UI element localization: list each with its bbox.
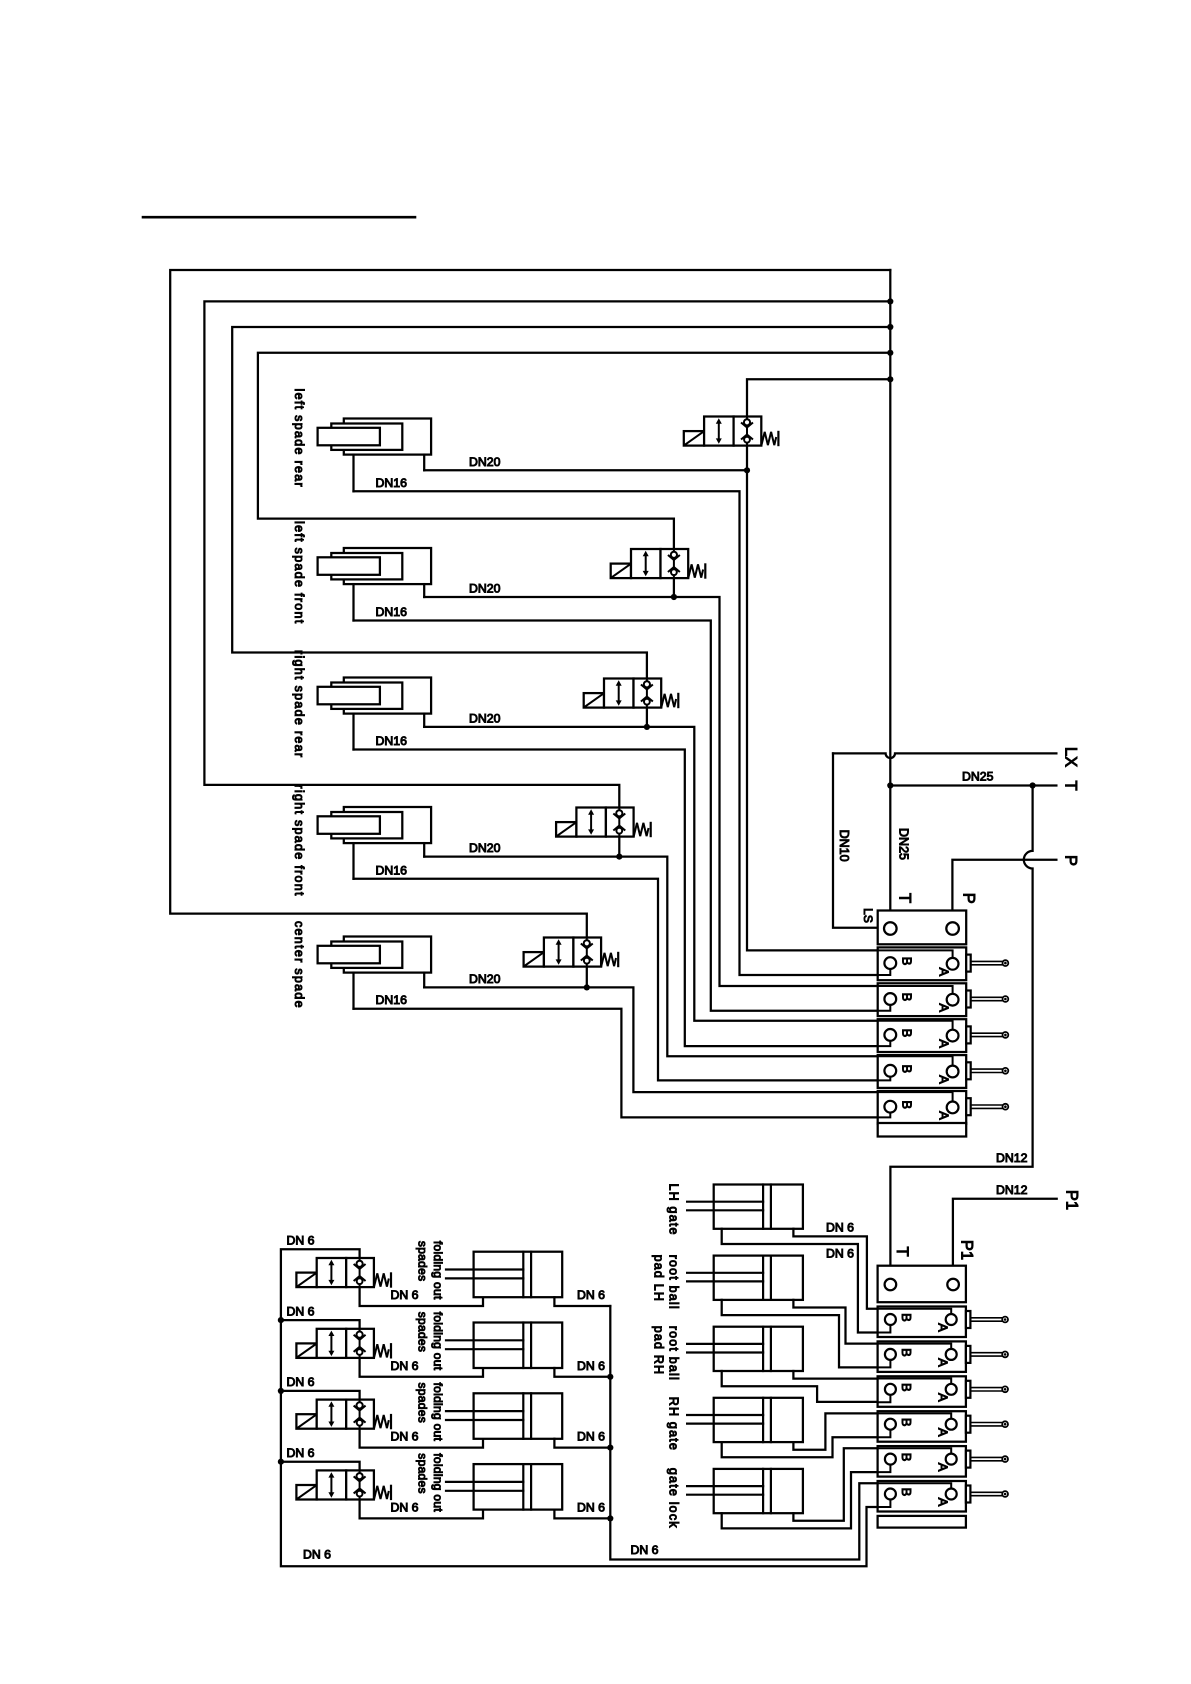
P1 section 2 port A circle <box>946 1349 957 1360</box>
wire DN6 branch to valve FV4 <box>281 1462 360 1471</box>
label "RH gate" <box>666 1397 680 1451</box>
svg-text:B: B <box>899 957 914 966</box>
svg-text:LH gate: LH gate <box>666 1184 680 1236</box>
svg-text:root ball: root ball <box>666 1255 680 1310</box>
svg-text:DN 6: DN 6 <box>391 1500 419 1514</box>
junction dot valve V5 bottom / DN20 <box>584 984 590 990</box>
cylinder FC4 "folding out spades" <box>446 1464 562 1510</box>
P1 section 5 label A <box>935 1463 950 1472</box>
P1 section 6 body <box>878 1481 966 1512</box>
cylinder 4 rod-side port wire <box>352 843 354 879</box>
P1 port T circle <box>885 1279 897 1291</box>
wire DN6 branch to valve FV3 <box>281 1391 360 1400</box>
wire DN16 row 3 (cylinder to manifold B) <box>354 750 878 1047</box>
solenoid valve FV2 (folding out spades) <box>296 1329 391 1358</box>
junction dot trunk / valve V4 feed <box>887 298 893 304</box>
label DN 6 (bottom middle) <box>631 1543 659 1557</box>
wire DN12 drop to P1 manifold T port <box>890 786 1032 1279</box>
svg-text:pad LH: pad LH <box>651 1255 665 1303</box>
svg-text:DN16: DN16 <box>376 734 408 748</box>
svg-text:DN 6: DN 6 <box>826 1247 854 1261</box>
P1 section 5 port A circle <box>946 1454 957 1465</box>
svg-text:P: P <box>959 893 977 904</box>
valve V2 bottom port wire <box>673 578 675 597</box>
svg-text:LX: LX <box>1061 747 1079 767</box>
svg-text:DN10: DN10 <box>837 830 851 862</box>
cylinder FC2 "folding out spades" <box>446 1323 562 1369</box>
solenoid valve V5 <box>524 938 619 967</box>
label P (manifold port) <box>959 893 977 904</box>
manifold block P1 - end plate <box>878 1516 966 1528</box>
label DN20 row 1 <box>469 455 501 469</box>
P1 section 6 port B circle <box>885 1489 896 1500</box>
P1 section 5 port B circle <box>885 1454 896 1465</box>
svg-text:right spade front: right spade front <box>292 784 306 896</box>
junction dot trunk / valve V3 feed <box>887 324 893 330</box>
wire cylinder GC3 piston port to P1 section 3 A <box>793 1371 877 1379</box>
solenoid valve FV3 (folding out spades) <box>296 1400 391 1429</box>
svg-text:A: A <box>935 1393 950 1402</box>
section 5 port A circle <box>947 1102 959 1114</box>
label "LH gate" <box>666 1184 680 1236</box>
wire DN10 vertical to LS port <box>833 753 878 927</box>
section 3 port B circle <box>884 1029 896 1041</box>
svg-text:A: A <box>935 1463 950 1472</box>
label DN 6 (branch 4) <box>287 1446 315 1460</box>
svg-text:B: B <box>899 1348 914 1357</box>
P1 section 3 label B <box>899 1383 914 1392</box>
section 4 port B circle <box>884 1065 896 1077</box>
label "center spade" <box>292 921 306 1009</box>
P1 section 1 hand lever <box>966 1311 1008 1328</box>
label LX <box>1061 747 1079 767</box>
wire cylinder FC3 to right bus <box>554 1439 610 1448</box>
section 2 label B <box>899 993 914 1002</box>
wire DN20 row 3 (cylinder to valve/manifold A) <box>424 727 878 1021</box>
cylinder 3 piston-side port wire <box>423 714 425 727</box>
section 3 port A circle <box>947 1030 959 1042</box>
wire LX line (LS pilot) with hop <box>833 753 1056 758</box>
svg-text:DN25: DN25 <box>962 770 994 784</box>
label DN 6 (valve out 2) <box>391 1359 419 1373</box>
P1 section 3 hand lever <box>966 1381 1008 1398</box>
section 1 hand lever <box>966 955 1008 972</box>
label P (right edge) <box>1061 855 1079 866</box>
wire cylinder FC4 to right bus <box>554 1510 610 1519</box>
svg-text:DN 6: DN 6 <box>287 1234 315 1248</box>
svg-text:spades: spades <box>416 1241 430 1282</box>
label "gate lock" <box>666 1468 680 1529</box>
telescopic cylinder "right spade front" <box>318 807 431 843</box>
label "folding out spades" 1 <box>416 1241 445 1300</box>
manifold section 3 body <box>878 1019 967 1052</box>
cylinder 1 piston-side port wire <box>423 455 425 471</box>
wire DN6 branch to valve FV2 <box>281 1320 360 1329</box>
P1 section 1 port A circle <box>946 1314 957 1325</box>
section 5 hand lever <box>966 1098 1008 1115</box>
section 5 label B <box>899 1100 914 1109</box>
svg-text:B: B <box>899 993 914 1002</box>
svg-text:DN 6: DN 6 <box>391 1430 419 1444</box>
svg-text:DN 6: DN 6 <box>287 1375 315 1389</box>
section 3 A wire inside <box>878 1021 953 1030</box>
svg-text:B: B <box>899 1100 914 1109</box>
wire loop valve V2 top port to DN25 trunk <box>258 353 890 549</box>
P1 section 3 A wire inside <box>878 1379 952 1384</box>
svg-text:DN 6: DN 6 <box>826 1221 854 1235</box>
telescopic cylinder "right spade rear" <box>318 678 431 714</box>
svg-text:A: A <box>935 1323 950 1332</box>
label DN 6 (cyl out 1) <box>577 1288 605 1302</box>
label "folding out spades" 2 <box>416 1312 445 1371</box>
P1 section 5 body <box>878 1446 966 1477</box>
telescopic cylinder "left spade rear" <box>318 419 431 455</box>
wire loop valve V4 top port to DN25 trunk <box>204 301 890 807</box>
junction dot left bus branch 3 <box>278 1388 284 1394</box>
section 1 label A <box>936 967 951 976</box>
P1 section 6 hand lever <box>966 1486 1008 1503</box>
svg-text:P: P <box>1061 855 1079 866</box>
wire DN20 row 5 (cylinder to valve/manifold A) <box>424 987 878 1092</box>
wire cylinder GC1 piston port to P1 section 1 A <box>793 1229 877 1309</box>
wire DN16 row 4 (cylinder to manifold B) <box>354 879 878 1081</box>
section 2 A wire inside <box>878 986 953 994</box>
P1 section 3 port B circle <box>885 1384 896 1395</box>
cylinder GC1 "LH gate" <box>687 1185 803 1229</box>
wire loop valve V5 top port to DN25 trunk <box>170 270 890 938</box>
label DN 6 (valve out 4) <box>391 1500 419 1514</box>
cylinder 5 piston-side port wire <box>423 973 425 988</box>
label "folding out spades" 4 <box>416 1453 445 1512</box>
wire DN20 row 1 (cylinder to valve/manifold A) <box>424 470 878 950</box>
valve V4 bottom port wire <box>618 837 620 857</box>
label DN 6 (cyl out 2) <box>577 1359 605 1373</box>
label DN20 row 3 <box>469 711 501 725</box>
label DN 6 (GC1 rod line) <box>826 1247 854 1261</box>
label DN 6 (valve out 1) <box>391 1288 419 1302</box>
wire cylinder GC5 rod port to P1 section 5 B <box>722 1472 878 1528</box>
section 1 port B circle <box>884 957 896 969</box>
section 2 B hook inside <box>878 1005 891 1011</box>
label T (right edge) <box>1061 780 1079 790</box>
svg-text:gate lock: gate lock <box>666 1468 680 1529</box>
svg-text:spades: spades <box>416 1453 430 1494</box>
junction dot valve V4 bottom / DN20 <box>616 854 622 860</box>
label T (manifold port) <box>895 893 913 903</box>
solenoid valve FV4 (folding out spades) <box>296 1470 391 1499</box>
label DN 6 (GC1 piston line) <box>826 1221 854 1235</box>
svg-text:pad RH: pad RH <box>651 1326 665 1376</box>
section 1 port A circle <box>947 958 959 970</box>
P1 section 2 body <box>878 1341 966 1372</box>
svg-text:DN 6: DN 6 <box>577 1288 605 1302</box>
P1 section 5 B hook inside <box>878 1465 891 1473</box>
label DN20 row 5 <box>469 972 501 986</box>
P1 section 1 label B <box>899 1313 914 1322</box>
section 4 A wire inside <box>878 1056 953 1065</box>
svg-text:DN16: DN16 <box>376 863 408 877</box>
svg-text:DN16: DN16 <box>376 476 408 490</box>
P1 section 6 A wire inside <box>878 1483 952 1488</box>
junction dot valve V3 bottom / DN20 <box>644 724 650 730</box>
label DN25 (T line) <box>962 770 994 784</box>
P1 section 2 label B <box>899 1348 914 1357</box>
P1 section 3 B hook inside <box>878 1395 891 1403</box>
cylinder GC5 "gate lock" <box>687 1469 803 1513</box>
wire cylinder GC2 piston port to P1 section 2 A <box>793 1300 877 1344</box>
section 5 A wire inside <box>878 1092 953 1101</box>
telescopic cylinder "left spade front" <box>318 548 431 584</box>
P1 section 1 body <box>878 1307 966 1338</box>
valve V3 bottom port wire <box>646 708 648 727</box>
label P1 (right edge) <box>1062 1190 1080 1210</box>
svg-text:B: B <box>899 1064 914 1073</box>
svg-text:B: B <box>899 1488 914 1497</box>
svg-text:T: T <box>1061 780 1079 790</box>
svg-text:spades: spades <box>416 1312 430 1353</box>
wire DN16 row 2 (cylinder to manifold B) <box>354 621 878 1011</box>
P1 section 2 B hook inside <box>878 1360 891 1368</box>
cylinder FC3 "folding out spades" <box>446 1393 562 1439</box>
svg-text:P1: P1 <box>958 1240 976 1260</box>
manifold section 1 body <box>878 947 967 980</box>
wire valve FV2 to cylinder FC2 <box>360 1358 483 1377</box>
svg-text:A: A <box>936 967 951 976</box>
section 4 label B <box>899 1064 914 1073</box>
P1 section 4 B hook inside <box>878 1430 891 1438</box>
label P1 (P1 manifold port) <box>958 1240 976 1260</box>
label "right spade rear" <box>292 650 306 758</box>
wire P1 supply line <box>953 1199 1057 1279</box>
label DN25 (vertical trunk) <box>897 828 911 860</box>
section 3 B hook inside <box>878 1041 891 1046</box>
svg-text:center spade: center spade <box>292 921 306 1009</box>
wire DN6 left bus (from P1 sec6 B) <box>281 1249 878 1566</box>
P1 section 6 B hook inside <box>878 1500 891 1508</box>
section 2 hand lever <box>966 991 1008 1008</box>
solenoid valve V3 <box>584 679 679 708</box>
svg-text:right spade rear: right spade rear <box>292 650 306 758</box>
label DN16 row 4 <box>376 863 408 877</box>
solenoid valve FV1 (folding out spades) <box>296 1258 391 1287</box>
section 3 label A <box>936 1039 951 1048</box>
svg-text:B: B <box>899 1029 914 1038</box>
svg-text:DN16: DN16 <box>376 605 408 619</box>
wire DN25 trunk vertical <box>889 270 891 922</box>
label "left spade front" <box>292 521 306 625</box>
label DN20 row 2 <box>469 582 501 596</box>
junction dot right bus 2 <box>607 1374 613 1380</box>
svg-text:LS: LS <box>861 908 875 923</box>
section 3 label B <box>899 1029 914 1038</box>
svg-text:A: A <box>935 1428 950 1437</box>
title underline <box>143 216 415 219</box>
port T circle <box>884 922 897 935</box>
cylinder FC1 "folding out spades" <box>446 1252 562 1298</box>
cylinder GC2 "root ball pad LH" <box>687 1256 803 1300</box>
svg-text:DN20: DN20 <box>469 841 501 855</box>
section 2 label A <box>936 1003 951 1012</box>
svg-text:DN12: DN12 <box>996 1151 1028 1165</box>
P1 section 4 port B circle <box>885 1419 896 1430</box>
label DN 6 (cyl out 4) <box>577 1500 605 1514</box>
P1 section 1 A wire inside <box>878 1309 952 1314</box>
svg-text:T: T <box>895 893 913 903</box>
P1 section 4 label B <box>899 1418 914 1427</box>
svg-text:DN20: DN20 <box>469 972 501 986</box>
svg-text:B: B <box>899 1418 914 1427</box>
label DN10 <box>837 830 851 862</box>
label DN 6 (cyl out 3) <box>577 1430 605 1444</box>
svg-text:A: A <box>936 1039 951 1048</box>
solenoid valve V4 <box>556 808 651 837</box>
junction dot valve V2 bottom / DN20 <box>671 594 677 600</box>
label DN 6 (branch 2) <box>287 1304 315 1318</box>
junction dot trunk / valve V1 feed <box>887 376 893 382</box>
label "root ball pad RH" <box>651 1326 680 1381</box>
section 3 hand lever <box>966 1026 1008 1043</box>
P1 section 2 label A <box>935 1358 950 1367</box>
junction dot left bus branch 2 <box>278 1317 284 1323</box>
svg-text:DN20: DN20 <box>469 455 501 469</box>
svg-text:DN 6: DN 6 <box>391 1288 419 1302</box>
section 1 label B <box>899 957 914 966</box>
section 4 port A circle <box>947 1066 959 1078</box>
wire loop valve V3 top port to DN25 trunk <box>232 327 890 679</box>
wire T line (tank) <box>890 784 1056 786</box>
valve V5 bottom port wire <box>586 967 588 988</box>
cylinder GC3 "root ball pad RH" <box>687 1327 803 1371</box>
cylinder GC4 "RH gate" <box>687 1398 803 1442</box>
solenoid valve V1 <box>684 417 779 446</box>
manifold section 2 body <box>878 983 967 1016</box>
section 4 hand lever <box>966 1062 1008 1079</box>
manifold block P - T/P section <box>878 911 967 945</box>
svg-text:B: B <box>899 1453 914 1462</box>
svg-text:DN 6: DN 6 <box>577 1359 605 1373</box>
label DN 6 (branch 1) <box>287 1234 315 1248</box>
P1 section 4 port A circle <box>946 1419 957 1430</box>
solenoid valve V2 <box>611 549 706 578</box>
wire DN20 row 2 (cylinder to valve/manifold A) <box>424 597 878 986</box>
cylinder 4 piston-side port wire <box>423 843 425 857</box>
label "folding out spades" 3 <box>416 1383 445 1442</box>
wire cylinder GC4 rod port to P1 section 4 B <box>722 1437 878 1457</box>
P1 section 1 B hook inside <box>878 1325 891 1333</box>
svg-text:spades: spades <box>416 1383 430 1424</box>
svg-text:DN 6: DN 6 <box>631 1543 659 1557</box>
junction dot right bus 4 <box>607 1515 613 1521</box>
label DN16 row 3 <box>376 734 408 748</box>
svg-text:DN 6: DN 6 <box>577 1500 605 1514</box>
wire DN16 row 5 (cylinder to manifold B) <box>354 1009 878 1118</box>
svg-text:A: A <box>936 1003 951 1012</box>
cylinder 3 rod-side port wire <box>352 714 354 750</box>
P1 section 5 hand lever <box>966 1451 1008 1468</box>
section 5 B hook inside <box>878 1113 891 1118</box>
svg-text:DN16: DN16 <box>376 993 408 1007</box>
section 5 port B circle <box>884 1101 896 1113</box>
label "left spade rear" <box>292 389 306 488</box>
cylinder 5 rod-side port wire <box>352 973 354 1009</box>
svg-text:DN12: DN12 <box>996 1183 1028 1197</box>
manifold section 5 body <box>878 1091 967 1124</box>
svg-text:DN 6: DN 6 <box>391 1359 419 1373</box>
svg-text:DN20: DN20 <box>469 582 501 596</box>
P1 section 4 label A <box>935 1428 950 1437</box>
cylinder 2 rod-side port wire <box>352 584 354 620</box>
P1 section 4 body <box>878 1411 966 1442</box>
svg-text:folding out: folding out <box>431 1312 445 1371</box>
label T (P1 manifold port) <box>893 1246 911 1256</box>
section 2 port B circle <box>884 993 896 1005</box>
P1 section 4 A wire inside <box>878 1413 952 1418</box>
section 5 label A <box>936 1111 951 1120</box>
label DN 6 (bottom left) <box>303 1548 331 1562</box>
P1 section 6 label A <box>935 1498 950 1507</box>
P1 section 6 port A circle <box>946 1489 957 1500</box>
svg-text:folding out: folding out <box>431 1453 445 1512</box>
svg-text:A: A <box>936 1075 951 1084</box>
label DN16 row 1 <box>376 476 408 490</box>
svg-text:DN 6: DN 6 <box>287 1304 315 1318</box>
label DN16 row 5 <box>376 993 408 1007</box>
label LS <box>861 908 875 923</box>
P1 section 3 port A circle <box>946 1384 957 1395</box>
wire valve FV3 to cylinder FC3 <box>360 1429 483 1448</box>
section 2 port A circle <box>947 994 959 1006</box>
label DN12 (lower) <box>996 1183 1028 1197</box>
svg-text:DN25: DN25 <box>897 828 911 860</box>
section 1 B hook inside <box>878 969 891 975</box>
P1 section 3 body <box>878 1376 966 1407</box>
svg-text:B: B <box>899 1313 914 1322</box>
manifold block P1 - T/P1 section <box>878 1266 966 1303</box>
svg-text:T: T <box>893 1246 911 1256</box>
section 4 label A <box>936 1075 951 1084</box>
P1 section 1 port B circle <box>885 1314 896 1325</box>
section 1 A wire inside <box>878 950 953 958</box>
P1 section 6 label B <box>899 1488 914 1497</box>
wire cylinder GC2 rod port to P1 section 2 B <box>722 1300 878 1368</box>
telescopic cylinder "center spade" <box>318 937 431 973</box>
cylinder 1 rod-side port wire <box>352 455 354 492</box>
P1 section 5 A wire inside <box>878 1448 952 1453</box>
wire valve V1 top port to DN25 trunk <box>747 379 890 416</box>
svg-text:DN 6: DN 6 <box>303 1548 331 1562</box>
svg-text:DN20: DN20 <box>469 711 501 725</box>
wire cylinder FC1 to right bus <box>554 1297 610 1306</box>
wire valve FV4 to cylinder FC4 <box>360 1500 483 1519</box>
svg-text:A: A <box>935 1358 950 1367</box>
svg-text:RH gate: RH gate <box>666 1397 680 1451</box>
svg-text:folding out: folding out <box>431 1383 445 1442</box>
svg-text:DN 6: DN 6 <box>577 1430 605 1444</box>
label "root ball pad LH" <box>651 1255 680 1310</box>
svg-text:DN 6: DN 6 <box>287 1446 315 1460</box>
manifold block P - end plate <box>878 1123 967 1137</box>
wire P line (pressure) <box>952 860 1056 923</box>
label "right spade front" <box>292 784 306 896</box>
junction dot T line / DN12 drop <box>1030 782 1036 788</box>
port P circle <box>946 922 959 935</box>
svg-text:A: A <box>936 1111 951 1120</box>
wire cylinder GC3 rod port to P1 section 3 B <box>722 1371 878 1402</box>
P1 section 2 hand lever <box>966 1346 1008 1363</box>
svg-text:P1: P1 <box>1062 1190 1080 1210</box>
label DN 6 (branch 3) <box>287 1375 315 1389</box>
junction dot trunk / valve V2 feed <box>887 350 893 356</box>
